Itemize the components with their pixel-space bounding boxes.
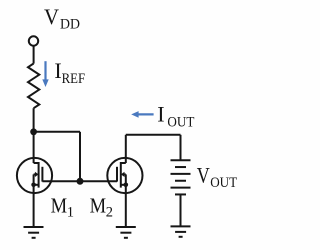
wire diode-connect vertical bbox=[79, 132, 81, 182]
transistor M1 bbox=[17, 158, 52, 193]
wire node A to M1 drain bbox=[33, 132, 35, 163]
svg-text:1: 1 bbox=[67, 205, 74, 221]
wire M2 source to ground bbox=[125, 185, 127, 227]
svg-text:V: V bbox=[197, 162, 210, 187]
current arrow IREF bbox=[42, 61, 48, 87]
svg-text:V: V bbox=[44, 4, 59, 29]
wire M2 drain riser bbox=[125, 135, 127, 163]
resistor R bbox=[28, 64, 39, 109]
wire resistor to node A bbox=[33, 108, 35, 132]
ground under battery bbox=[171, 226, 191, 236]
svg-text:OUT: OUT bbox=[210, 175, 237, 191]
svg-text:M: M bbox=[51, 193, 68, 217]
current arrow IOUT bbox=[131, 111, 153, 118]
node B gate junction dot bbox=[77, 178, 84, 185]
svg-text:M: M bbox=[90, 193, 107, 217]
wire terminal to resistor bbox=[33, 46, 35, 64]
svg-text:2: 2 bbox=[106, 205, 113, 221]
wire gate rail M1-M2 bbox=[42, 180, 117, 182]
battery VOUT bbox=[171, 160, 191, 194]
terminal VDD bbox=[29, 36, 38, 45]
svg-text:REF: REF bbox=[62, 71, 86, 87]
ground under M2 bbox=[116, 227, 136, 238]
wire M1 source to ground bbox=[33, 185, 35, 227]
node A junction dot bbox=[30, 128, 37, 135]
svg-text:DD: DD bbox=[60, 17, 80, 33]
transistor M2 bbox=[107, 158, 142, 193]
ground under M1 bbox=[24, 227, 44, 238]
wire diode-connect horizontal bbox=[34, 131, 80, 133]
wire battery top lead bbox=[180, 135, 182, 160]
wire battery bottom lead bbox=[180, 194, 182, 226]
svg-text:I: I bbox=[157, 101, 164, 126]
wire top rail to battery bbox=[126, 134, 181, 136]
svg-text:OUT: OUT bbox=[167, 115, 194, 131]
